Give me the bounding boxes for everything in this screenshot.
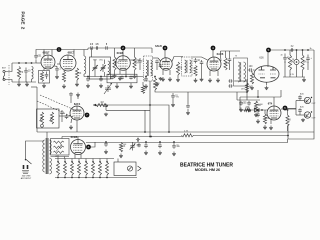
coil T2 primary — [185, 60, 187, 73]
resistor R23 pot in box — [50, 112, 53, 124]
tube V3 6CB6 IF amp — [116, 56, 131, 71]
capacitor C14b — [155, 60, 159, 64]
capacitor C24 stack — [228, 84, 232, 88]
pilot lamp/electrolytic marker — [294, 59, 299, 64]
wire C17 down — [229, 63, 231, 70]
pot arrow R22 — [40, 116, 44, 121]
ground det 2 — [248, 108, 250, 110]
ground line 3 — [173, 152, 175, 154]
wire V1 grid from input — [36, 62, 42, 64]
ground below V5 b — [217, 78, 219, 80]
ground below V6 — [266, 86, 268, 88]
wire C2 down to grid node — [35, 59, 37, 63]
ground line 2 — [159, 151, 161, 153]
channel coil L9 — [85, 162, 88, 175]
antenna input terminals J1 — [3, 70, 5, 72]
coil T1b primary — [146, 60, 148, 76]
wire V4 grid in — [158, 58, 161, 61]
wire det h — [237, 99, 260, 101]
core line T3 — [240, 62, 242, 82]
wire C14b down — [156, 64, 158, 70]
resistor R19 V7 left — [263, 114, 266, 124]
wire AGC line — [93, 105, 169, 132]
trimmer capacitor below IFT1 — [105, 88, 111, 90]
wire R7 top to rail B — [114, 48, 116, 57]
node input top 2 — [25, 62, 27, 64]
wire C16 down — [201, 65, 203, 77]
wire cv3 top — [132, 141, 134, 144]
ground power section — [303, 78, 305, 80]
wire V7 top stub — [273, 97, 275, 106]
output jack J3 — [304, 112, 310, 118]
wire bottom line P (B+ return) — [37, 131, 314, 133]
capacitor C37 right of V9 — [104, 142, 108, 147]
capacitor C36 above V8 — [69, 92, 73, 96]
node V3 pin2 bus — [125, 76, 127, 78]
node R x160 — [159, 141, 161, 143]
variable capacitor CV2 — [101, 64, 105, 72]
capacitor C22b mid — [186, 104, 190, 108]
capacitor C20 electrolytic — [283, 54, 287, 63]
svg-text:10K: 10K — [121, 146, 126, 148]
wire transformer top stub — [46, 132, 48, 138]
wire audio line — [240, 109, 268, 111]
wire R8 top — [134, 48, 136, 57]
ground bus 4 — [130, 84, 132, 86]
wire v8 gnd link — [70, 119, 73, 123]
test point balloon 7 — [85, 113, 90, 118]
tube V9 6CB6 RF — [71, 140, 86, 155]
wire stub detector — [257, 90, 259, 97]
test point balloon 2 — [121, 46, 126, 51]
resistor R22 pot in box — [40, 112, 43, 124]
ground below R10 — [195, 78, 197, 80]
capacitor C27 V7 — [256, 112, 260, 117]
wire rail B drop to IFT1 — [91, 48, 93, 57]
node bus 5 — [145, 76, 147, 78]
wire caps to v247 — [234, 80, 247, 82]
svg-text:6AU6: 6AU6 — [155, 44, 162, 48]
wire R12 top — [251, 71, 253, 73]
ground below R9 — [177, 78, 179, 80]
wire R20 top — [287, 111, 289, 115]
wire osc output line — [106, 109, 150, 111]
ground below R24 — [120, 154, 122, 156]
tube V7 6T4 audio — [267, 106, 281, 120]
wire c30 link — [137, 141, 139, 142]
wire R5 to ground — [76, 80, 78, 82]
wire C14 down — [139, 64, 141, 70]
capacitor C35 right of box — [65, 114, 69, 119]
300 ohm antenna terminals — [24, 165, 28, 169]
wire balloon6 line — [287, 108, 296, 110]
wire V9 top stub — [77, 137, 79, 140]
resistor R1 — [17, 67, 20, 80]
resistor R15 AGC — [96, 103, 108, 106]
wire balloon3 stub — [164, 50, 166, 58]
wire mid v at 247 — [246, 79, 248, 100]
resistor R21 line Q — [182, 134, 194, 137]
wire V1 cathode down — [43, 68, 45, 70]
tube V8 6AF4 oscillator — [70, 106, 84, 120]
capacitor C18 V6 input — [249, 68, 253, 72]
channel coil L8 — [78, 162, 81, 175]
resistor R11 — [224, 58, 227, 71]
wire C4 to ground — [56, 72, 58, 74]
channel coil L10 — [92, 162, 95, 175]
wire B+ rail — [268, 49, 314, 51]
pot arrow R23 — [50, 116, 54, 121]
wire lamp leads — [296, 50, 298, 59]
wire c37 top — [105, 141, 107, 143]
capacitor C22 mid — [171, 93, 175, 99]
capacitor C19 series line — [290, 48, 294, 52]
wire V3 cathode pins — [119, 70, 121, 75]
wire V2 cathode — [63, 71, 65, 72]
resistor R6 dropping — [153, 78, 156, 90]
ground below V1 box — [43, 84, 45, 86]
resistor R7 — [113, 57, 116, 70]
wire right edge drop — [313, 50, 315, 132]
capacitor C14 — [138, 58, 142, 64]
wire V1 plate top to rail — [51, 50, 53, 57]
tube V6 6J6 detector (wide envelope) — [254, 66, 279, 82]
wire V9 pin stub b — [80, 154, 82, 159]
wire V2 plate to rail — [73, 50, 75, 57]
wire T2 to V5 grid — [192, 57, 208, 60]
wire P corner down — [288, 132, 314, 139]
tuner box top stub — [31, 86, 37, 88]
capacitor C29 out — [298, 108, 302, 112]
wire R6b stub — [142, 82, 144, 86]
coil T3 secondary — [244, 62, 246, 82]
wire box to ground — [43, 82, 45, 85]
wire pwr bottom rail — [283, 76, 305, 78]
svg-text:6CB6: 6CB6 — [71, 135, 78, 139]
svg-text:.005: .005 — [242, 103, 247, 105]
wire R14 bottom — [302, 70, 304, 77]
wire V6 cathode down — [266, 82, 268, 85]
capacitor C25 det — [239, 101, 243, 106]
wire balloon4 stub — [212, 50, 214, 57]
wire R13 bottom — [289, 70, 291, 77]
capacitor C7 in shield box — [110, 76, 114, 80]
wire top rail A — [38, 49, 89, 51]
wire V2 grid link — [57, 63, 61, 65]
capacitor C13 series — [106, 46, 107, 50]
coil inside IFT1 — [108, 61, 110, 75]
ground below R5 — [76, 82, 78, 84]
transformer T4 core — [46, 138, 48, 174]
ground line 1 — [145, 151, 147, 153]
svg-text:10K: 10K — [303, 62, 308, 64]
wire V9 pin stub a — [74, 154, 76, 159]
resistor R10 — [194, 66, 197, 77]
wire V8 bottom — [76, 120, 78, 132]
core line T2 — [186, 60, 188, 73]
resistor R26 in matching box — [54, 146, 65, 148]
capacitor C30 line — [136, 138, 140, 142]
capacitor C17 — [228, 57, 232, 62]
node P x169 — [168, 131, 170, 133]
shaft circle in box — [41, 124, 44, 127]
ground below C27 — [257, 119, 259, 121]
wire vertical x288 up — [287, 125, 289, 139]
channel coil L6 — [64, 162, 67, 175]
node det stub — [257, 96, 259, 98]
ground above V8 — [77, 93, 79, 95]
svg-text:AUD: AUD — [300, 93, 305, 96]
ground at input network — [26, 82, 28, 84]
coil T1b secondary — [151, 60, 153, 76]
wire coil box link — [117, 159, 119, 163]
node pwr 4 — [307, 49, 309, 51]
wire out bottom — [296, 114, 304, 116]
capacitor C5 bus — [86, 77, 90, 82]
svg-text:22K: 22K — [135, 63, 140, 65]
node bus 2 — [100, 76, 102, 78]
coil T2 secondary — [190, 60, 192, 73]
resistor R13 — [288, 55, 291, 70]
capacitor C26 det — [247, 101, 251, 106]
wire balun bottom h — [51, 156, 70, 158]
wire bottom net to ground — [26, 81, 27, 83]
ground below R7 — [114, 74, 116, 76]
wire c33 top — [173, 142, 175, 144]
node P x150 — [149, 136, 151, 138]
dashed tuning linkage 2 — [37, 101, 73, 117]
node pwr 2 — [296, 49, 298, 51]
channel coil L11 — [99, 162, 102, 175]
svg-text:10K: 10K — [77, 73, 82, 75]
wire balun to bank stub a — [57, 155, 59, 159]
channel coil L7 — [71, 162, 74, 175]
node input top — [18, 62, 20, 64]
capacitor C9 in shield box — [129, 76, 133, 80]
wire C1 bottom — [25, 75, 27, 82]
test point balloon 3 — [163, 46, 168, 51]
capacitor C33 line — [172, 144, 176, 149]
resistor R5 below V2 — [75, 68, 78, 80]
wire R19 top — [264, 110, 266, 114]
core line T1b — [147, 60, 149, 76]
wire box bottom right corner v — [280, 90, 282, 97]
ground bus 3 — [116, 84, 118, 86]
wire C18 left — [248, 69, 249, 71]
wire bottom bus of input network — [12, 81, 36, 83]
ground below R8 — [134, 74, 136, 76]
svg-text:L3: L3 — [55, 156, 57, 158]
wire coil bank top rail — [55, 158, 114, 160]
ground bus 2 — [100, 84, 102, 86]
node 247a — [246, 91, 248, 93]
wire L1 bottom — [31, 79, 33, 82]
wire det v 237 — [236, 92, 238, 100]
wire input to network top — [5, 63, 12, 72]
shield box on bus — [107, 74, 137, 83]
wire gnd stub v8 — [77, 97, 79, 100]
wire C20 down — [284, 61, 286, 77]
wire V7 cathode — [270, 120, 272, 125]
wire IFT1 bottoms b — [104, 72, 106, 77]
node v150 — [149, 104, 151, 106]
resistor R25 in matching box — [54, 141, 65, 143]
ground below jack 2 — [302, 118, 304, 119]
wire V3 top stub to balloon — [122, 50, 124, 56]
node pwr 3 — [302, 49, 304, 51]
wire jack vertical — [295, 101, 297, 116]
wire V4 pin2 — [169, 70, 171, 75]
ground det 3 — [255, 113, 257, 115]
ground below V7 — [270, 126, 272, 128]
resistor network box below V1 — [39, 71, 50, 84]
resistor R12 below C18 — [250, 73, 253, 84]
svg-text:47K: 47K — [245, 107, 250, 109]
capacitor C28 out — [298, 95, 302, 99]
ground below R4 — [63, 84, 65, 86]
capacitor C3 in box — [45, 72, 49, 79]
capacitor C6 bus — [99, 77, 103, 82]
svg-text:6AF4: 6AF4 — [74, 102, 81, 106]
IF transformer T3 box — [234, 58, 248, 86]
svg-text:AUD: AUD — [300, 106, 305, 109]
wire bottom line R — [86, 139, 288, 143]
turret switch box — [114, 162, 136, 176]
wire balun to line Q — [61, 137, 63, 139]
variable capacitor CV1 — [93, 64, 97, 72]
ground below C16 — [201, 77, 203, 79]
resistor R8 right of V3 — [133, 57, 136, 70]
turret contact circle — [127, 166, 132, 171]
choke L2 plate V2 — [84, 56, 86, 74]
resistor R2 in box — [40, 72, 43, 82]
test point balloon 4 — [211, 46, 216, 51]
tuner box left edge — [36, 87, 38, 132]
test point balloon 8 — [86, 145, 91, 150]
tube V5 6AU6 IF amp 2 — [207, 57, 221, 71]
wire box to ground 4 — [130, 83, 132, 84]
test point balloon 1 — [57, 47, 62, 52]
node Q x288 — [287, 135, 289, 137]
wire box to V8 — [59, 115, 70, 117]
wire line Q continue — [194, 135, 289, 137]
wire V8 top cap — [70, 96, 72, 103]
ground below V3 — [119, 76, 121, 78]
node x145 P — [144, 131, 146, 133]
wire C39 stub — [105, 108, 107, 110]
ground bus 1 — [87, 84, 89, 86]
wire V3 plate right — [130, 59, 140, 61]
svg-text:2: 2 — [20, 27, 25, 30]
node R6 bus — [154, 76, 156, 78]
matching box arrow — [56, 145, 62, 152]
tube V1 6BQ7 RF amp — [41, 55, 55, 69]
node R20 top — [287, 109, 289, 111]
wire V5 plate out — [220, 51, 223, 61]
ground below V4 a — [162, 77, 164, 79]
ground below osc line — [105, 113, 107, 114]
wire C22 down — [172, 99, 174, 102]
svg-text:6J6: 6J6 — [259, 56, 264, 60]
capacitor C23 stack — [228, 79, 232, 83]
node pwr 1 — [284, 49, 286, 51]
svg-text:ANT INPUT: ANT INPUT — [21, 177, 32, 180]
resistor R16 — [245, 83, 248, 92]
wire v240 stub — [239, 97, 241, 110]
ground below C37 — [105, 150, 107, 152]
svg-text:1M: 1M — [100, 102, 103, 104]
wire top bus of input network — [12, 62, 36, 64]
svg-text:6T4: 6T4 — [268, 102, 273, 106]
resistor R9 — [176, 62, 179, 75]
wire mid h from R6 — [155, 90, 186, 92]
wire v9 out — [86, 142, 96, 147]
test point balloon 5 — [266, 48, 271, 53]
capacitor C39 osc line — [104, 104, 108, 108]
capacitor C32 line — [158, 143, 162, 148]
tube V4 6AU6 IF amp — [160, 58, 172, 70]
node input top 3 — [31, 62, 33, 64]
turret arrow — [138, 166, 142, 171]
wire V6 left lead — [253, 69, 255, 71]
output jack J2 — [304, 97, 310, 103]
node R x146 — [145, 141, 147, 143]
svg-text:2K: 2K — [291, 62, 294, 64]
wire top rail B — [88, 47, 152, 49]
resistor R6b — [141, 86, 144, 94]
wire R13 leads — [289, 50, 291, 55]
wire C21 down — [307, 62, 309, 70]
wire V4 cathode — [162, 70, 164, 75]
wire box to ground 3 — [116, 83, 118, 84]
wire V4 plate to IFT2 — [172, 57, 183, 62]
capacitor C31 line — [144, 143, 148, 148]
svg-text:1K: 1K — [288, 120, 291, 122]
svg-text:.001: .001 — [37, 56, 42, 58]
wire vertical x145 — [144, 110, 146, 132]
node R x174 — [173, 141, 175, 143]
wire IFT1 bottoms — [94, 72, 96, 77]
wire V3 pin2 — [125, 70, 127, 77]
page number text (rotated) — [19, 11, 25, 25]
capacitor C4 coupling — [55, 66, 59, 72]
IF transformer T1 box — [90, 57, 111, 79]
IF transformer T1b dashed box — [144, 56, 153, 81]
balun box — [51, 139, 70, 156]
ground below C4 — [56, 75, 58, 77]
AGC arrowhead — [93, 104, 96, 106]
wire V7 plate right — [281, 108, 296, 110]
wire IFT1 internal top b — [104, 60, 106, 65]
wire rail B turn down — [151, 48, 153, 53]
tube V2 6BC7 mixer — [60, 55, 76, 71]
wire V5 cathode — [209, 71, 211, 77]
wire bottom line Q — [62, 136, 182, 138]
capacitor C8 in shield box — [120, 76, 124, 80]
svg-text:MODEL HM 26: MODEL HM 26 — [195, 168, 220, 172]
wire balun to bank stub b — [64, 157, 66, 159]
wire V6 plate stub up — [267, 52, 269, 67]
channel coil L5 — [57, 162, 60, 175]
resistor R18 audio — [244, 108, 251, 111]
ground below C14c — [160, 77, 162, 78]
wire C2 up to top rail — [36, 50, 38, 54]
capacitor C14c — [159, 64, 163, 68]
diode D1 — [255, 108, 260, 112]
wire rail A to B joint — [87, 48, 89, 50]
resistor R14 — [301, 55, 304, 70]
capacitor C15 — [194, 58, 198, 63]
